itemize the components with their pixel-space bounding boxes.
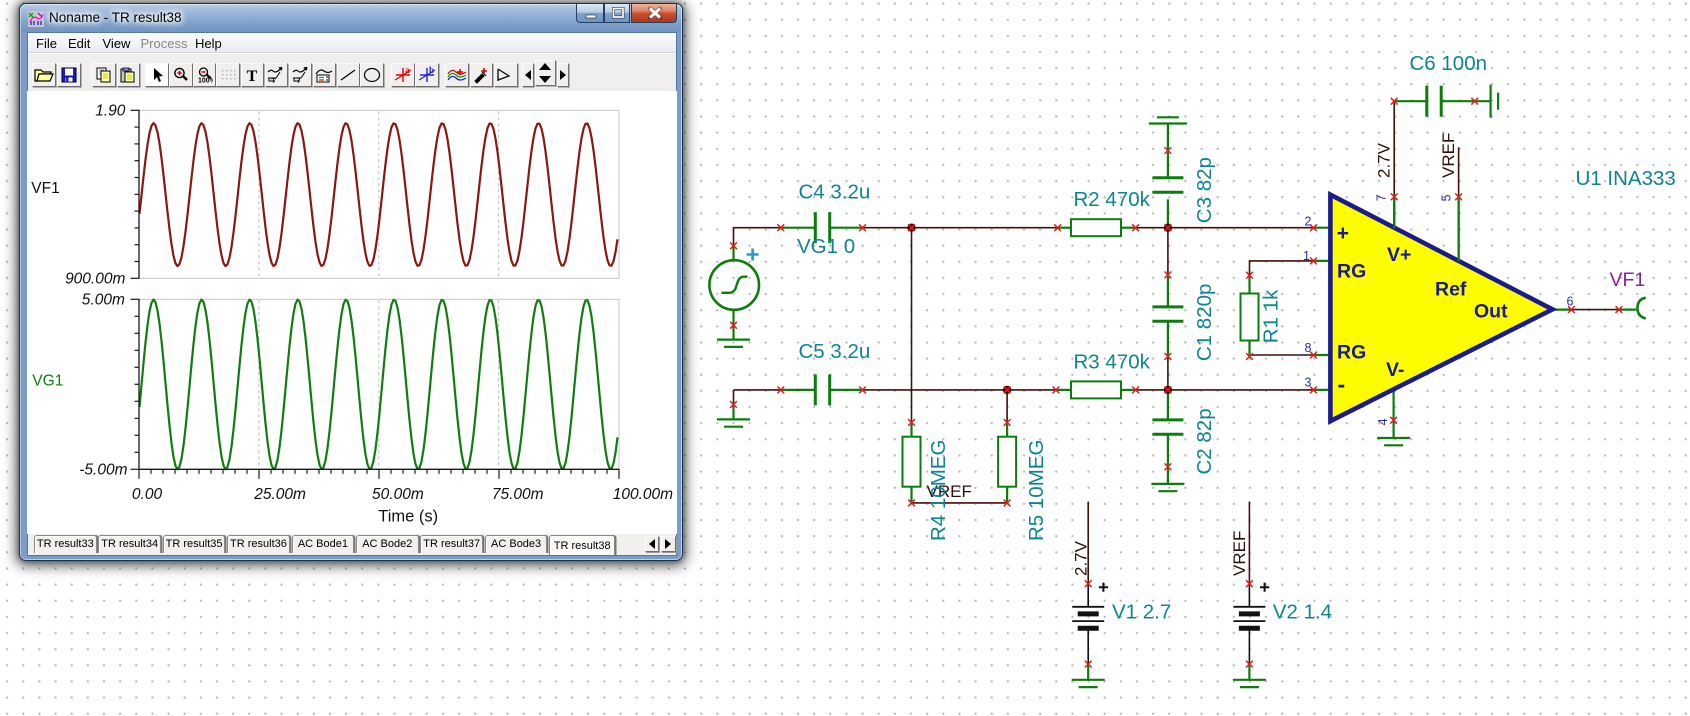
svg-text:VF1: VF1	[1610, 269, 1646, 291]
svg-text:-5.00m: -5.00m	[79, 462, 127, 479]
svg-text:100.00m: 100.00m	[612, 486, 672, 503]
svg-text:4: 4	[1376, 418, 1390, 425]
svg-text:R2 470k: R2 470k	[1074, 188, 1151, 211]
svg-text:C4 3.2u: C4 3.2u	[799, 181, 871, 204]
svg-text:RG: RG	[1337, 341, 1366, 363]
svg-text:+: +	[1337, 222, 1349, 245]
svg-text:75.00m: 75.00m	[491, 486, 543, 503]
svg-text:C5 3.2u: C5 3.2u	[799, 340, 871, 363]
svg-text:T: T	[272, 78, 277, 84]
svg-text:VG1: VG1	[32, 372, 63, 389]
svg-text:2.7V: 2.7V	[1072, 540, 1091, 576]
svg-text:-: -	[1338, 371, 1346, 397]
svg-text:VF1: VF1	[31, 180, 59, 197]
svg-text:1.90: 1.90	[95, 103, 126, 120]
svg-text:1: 1	[1303, 249, 1310, 263]
svg-text:100%: 100%	[198, 77, 213, 83]
svg-text:Time (s): Time (s)	[378, 507, 438, 525]
svg-text:5: 5	[1439, 194, 1453, 201]
svg-text:R4 10MEG: R4 10MEG	[927, 440, 950, 541]
svg-text:V1 2.7: V1 2.7	[1112, 600, 1171, 623]
svg-text:VG1 0: VG1 0	[797, 235, 855, 258]
svg-text:T: T	[247, 68, 258, 83]
svg-text:2: 2	[1305, 214, 1312, 228]
svg-text:C1 820p: C1 820p	[1193, 284, 1216, 362]
svg-text:V2 1.4: V2 1.4	[1273, 600, 1332, 623]
svg-text:b: b	[429, 66, 434, 75]
svg-text:VREF: VREF	[1230, 531, 1249, 576]
svg-text:a: a	[405, 66, 410, 75]
svg-text:5.00m: 5.00m	[81, 292, 124, 309]
svg-text:2.7V: 2.7V	[1375, 142, 1394, 178]
svg-text:0.00: 0.00	[131, 486, 162, 503]
svg-text:25.00m: 25.00m	[253, 486, 306, 503]
svg-text:3: 3	[1305, 375, 1312, 389]
svg-text:50.00m: 50.00m	[372, 486, 424, 503]
svg-text:Out: Out	[1474, 300, 1508, 322]
svg-text:U1 INA333: U1 INA333	[1576, 167, 1676, 190]
svg-text:?: ?	[296, 76, 300, 83]
svg-text:R3 470k: R3 470k	[1074, 351, 1151, 374]
svg-text:V-: V-	[1386, 359, 1404, 381]
svg-text:900.00m: 900.00m	[65, 271, 125, 288]
svg-text:7: 7	[1374, 194, 1388, 201]
svg-text:R1 1k: R1 1k	[1260, 289, 1283, 343]
svg-text:6: 6	[1567, 294, 1574, 308]
svg-text:V+: V+	[1387, 244, 1411, 266]
svg-text:R5 10MEG: R5 10MEG	[1025, 440, 1048, 541]
svg-text:C2 82p: C2 82p	[1193, 408, 1216, 474]
svg-text:RG: RG	[1337, 261, 1366, 283]
svg-text:8: 8	[1305, 341, 1312, 355]
svg-text:C6 100n: C6 100n	[1410, 52, 1488, 75]
svg-text:VREF: VREF	[1439, 133, 1458, 178]
svg-text:Ref: Ref	[1435, 279, 1467, 301]
svg-text:C3 82p: C3 82p	[1193, 157, 1216, 223]
